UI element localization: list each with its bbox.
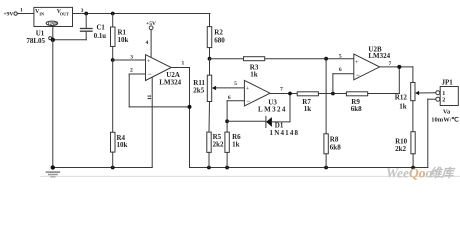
node R1/R4/U2A+ <box>111 58 115 62</box>
wire feedback U2A <box>129 74 189 107</box>
node U3- / R6 / D1 anode <box>225 119 229 123</box>
svg-text:0.1u: 0.1u <box>94 33 106 40</box>
svg-text:−: − <box>147 70 151 79</box>
svg-text:GND: GND <box>48 21 58 26</box>
svg-text:1N4148: 1N4148 <box>270 129 300 137</box>
svg-text:R2: R2 <box>214 29 223 37</box>
svg-text:3: 3 <box>130 55 133 61</box>
wire U2A - input, pin 2 <box>129 67 145 74</box>
wire R11 wiper to U3 + input, pin 5 <box>216 81 244 88</box>
wire JP1 pin 2 to bottom rail <box>428 99 435 167</box>
svg-text:10k: 10k <box>118 36 129 44</box>
svg-text:78L05: 78L05 <box>26 37 45 45</box>
terminal +9V <box>4 12 18 18</box>
svg-text:C1: C1 <box>97 25 106 32</box>
svg-text:1k: 1k <box>304 105 312 113</box>
node R1 top <box>111 12 115 16</box>
node feedback <box>188 105 192 109</box>
svg-text:10k: 10k <box>117 141 128 149</box>
faint artifact line <box>41 175 460 177</box>
svg-text:−: − <box>356 70 360 79</box>
connector JP1 <box>431 79 459 124</box>
wire U3 output, pin 7 <box>270 87 297 94</box>
node R7/R9/U2B- <box>331 92 335 96</box>
node D1 cathode branch <box>288 92 292 96</box>
wire U2A output, pin 1 <box>171 61 189 168</box>
node U2B out <box>397 65 401 69</box>
wire R12 wiper to JP1 pin 1 <box>419 92 435 94</box>
terminal +5V <box>146 21 156 30</box>
svg-text:OUT: OUT <box>60 12 69 17</box>
svg-text:2: 2 <box>442 98 445 104</box>
svg-text:2k5: 2k5 <box>193 86 204 94</box>
op-amp U3 <box>244 80 286 113</box>
svg-text:6k8: 6k8 <box>330 144 341 152</box>
svg-text:IN: IN <box>39 12 44 17</box>
svg-text:6k8: 6k8 <box>351 105 362 113</box>
svg-text:1k: 1k <box>250 71 257 79</box>
resistor R9 6k8 <box>346 67 399 113</box>
svg-text:LM324: LM324 <box>368 52 390 60</box>
op-amp U2A <box>146 55 182 100</box>
svg-text:+: + <box>246 85 250 92</box>
svg-text:1k: 1k <box>399 103 407 111</box>
svg-text:JP1: JP1 <box>442 79 454 87</box>
diode D1 1N4148 <box>227 94 299 137</box>
svg-text:+9V: +9V <box>4 12 14 18</box>
svg-text:7: 7 <box>389 61 392 67</box>
node C1 top <box>84 12 88 16</box>
svg-text:LM324: LM324 <box>159 79 181 87</box>
resistor R5 2k2 <box>207 132 224 167</box>
svg-text:R8: R8 <box>330 135 339 143</box>
potentiometer R12 1k <box>395 67 419 111</box>
wire U2A pin 11 to ground rail <box>151 77 153 167</box>
wire U1 GND pin down <box>49 27 55 168</box>
node R8 top <box>324 57 328 61</box>
ground symbol <box>47 172 60 177</box>
svg-text:维库: 维库 <box>430 166 456 180</box>
svg-text:10mW/℃: 10mW/℃ <box>431 115 459 123</box>
svg-text:2: 2 <box>130 67 133 73</box>
svg-text:R12: R12 <box>395 93 408 101</box>
svg-text:+: + <box>355 59 359 66</box>
resistor R1 10k <box>111 14 129 61</box>
svg-text:1: 1 <box>442 91 445 97</box>
resistor R7 1k <box>297 92 346 113</box>
resistor R8 6k8 <box>324 59 341 168</box>
potentiometer R11 2k5 <box>193 59 216 132</box>
svg-text:3: 3 <box>81 8 84 14</box>
svg-text:+: + <box>147 58 151 65</box>
wire C1 bottom to U1 GND <box>53 39 86 41</box>
capacitor C1 0.1u <box>81 14 107 41</box>
node R2/R11/R3 <box>208 57 212 61</box>
wire +5V to U2A pin 4 <box>146 30 152 58</box>
resistor R3 1k <box>244 57 265 79</box>
wire U2B - input, pin 6 <box>333 67 354 93</box>
wire +9V to U1, pin 1 <box>17 8 34 14</box>
svg-text:1: 1 <box>20 8 23 14</box>
wire U2B output, pin 7 <box>380 61 413 67</box>
svg-text:−: − <box>246 97 250 106</box>
ground rail (left, true GND) <box>51 165 153 169</box>
svg-text:680: 680 <box>214 37 225 45</box>
svg-text:1k: 1k <box>232 141 240 149</box>
bottom rail (virtual ground net) <box>190 166 428 170</box>
op-amp U2B <box>354 45 391 80</box>
svg-text:LM324: LM324 <box>258 106 287 114</box>
svg-text:2k2: 2k2 <box>213 141 224 149</box>
svg-text:R10: R10 <box>395 137 408 145</box>
wire to U2A + input, pin 3 <box>113 55 146 61</box>
resistor R2 680 <box>207 14 225 59</box>
svg-text:+5V: +5V <box>146 21 156 27</box>
svg-text:WeeQoo: WeeQoo <box>386 166 433 181</box>
regulator U1 78L05 <box>26 7 72 45</box>
resistor R6 1k <box>225 121 241 167</box>
resistor R10 2k2 <box>395 101 415 168</box>
svg-text:2k2: 2k2 <box>395 145 406 153</box>
svg-text:5: 5 <box>234 81 237 87</box>
wire U3 - input, pin 6 <box>227 95 244 121</box>
svg-text:4: 4 <box>146 40 149 46</box>
svg-text:6: 6 <box>339 67 342 73</box>
svg-text:6: 6 <box>228 95 231 101</box>
svg-text:Va: Va <box>443 109 451 116</box>
wire R3 net to U2B + <box>210 54 354 60</box>
svg-text:1: 1 <box>182 61 185 67</box>
wire U1 output rail, pin 3 <box>73 8 210 14</box>
resistor R4 10k <box>111 60 128 168</box>
svg-text:7: 7 <box>280 87 283 93</box>
watermark WeeQoo <box>386 166 456 181</box>
svg-text:5: 5 <box>339 54 342 60</box>
